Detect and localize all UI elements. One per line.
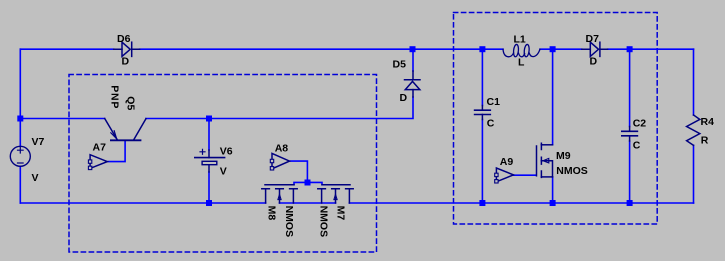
dashed subcircuit box right [454,13,658,225]
svg-text:R4: R4 [701,116,715,128]
junction C1 top [479,46,485,52]
svg-text:D7: D7 [586,33,600,45]
wire C2 top lead [629,49,631,126]
wire A8 output [291,161,308,182]
svg-text:A9: A9 [500,156,514,168]
svg-text:Q5: Q5 [124,96,136,110]
nmos M9 [537,143,553,177]
behavioral source A8 [270,153,289,170]
wire Q5 collector to D5 [146,97,413,119]
junction D5 top [410,46,416,52]
svg-text:C2: C2 [633,118,647,130]
capacitor C2 [622,127,638,142]
svg-text:NMOS: NMOS [283,206,295,238]
wire V6 bottom lead [208,172,210,203]
diode D7 [582,42,608,56]
svg-text:PNP: PNP [108,85,120,109]
svg-text:D5: D5 [393,59,407,71]
wire top middle [140,48,503,50]
svg-text:NMOS: NMOS [317,206,329,238]
resistor R4 [687,115,700,145]
svg-text:R: R [701,135,709,147]
dashed subcircuit box left [69,75,377,253]
wire top left [20,48,113,50]
svg-text:V: V [220,166,227,178]
wire bottom rail middle segment [280,202,336,204]
transistor Q5 (PNP) [105,119,146,141]
junction V6 bottom [206,200,212,206]
nmos M8 [262,185,297,203]
wire M9 drain [552,49,554,144]
inductor L1 [503,44,540,57]
wire Q5 base to A7 [108,140,125,161]
junction M9 drain top [550,46,556,52]
nmos M7 [318,185,353,203]
svg-text:V6: V6 [220,146,233,158]
svg-text:C: C [487,117,495,129]
junction C2 bottom [627,200,633,206]
wire gate bus M8-M7 [294,182,322,184]
wire Q5 emitter feed [20,118,104,120]
wire V6 top lead [208,119,210,151]
wire A9 output [514,174,537,176]
svg-text:V: V [32,172,39,184]
junction C1 bottom [479,200,485,206]
junction A8 gate node [305,180,311,186]
svg-text:L: L [518,56,525,68]
capacitor C1 [475,106,491,120]
svg-text:M9: M9 [556,150,571,162]
svg-text:V7: V7 [32,136,45,148]
svg-text:C: C [633,139,641,151]
voltage source V7 [10,146,30,166]
junction V6 top [206,116,212,122]
svg-text:D: D [590,56,598,68]
svg-text:D: D [122,56,130,68]
junction C2 top [627,46,633,52]
wire C1 top lead [481,49,483,105]
svg-text:L1: L1 [514,33,526,45]
wire R4 bottom [693,145,695,203]
wire bottom rail right segment [349,202,693,204]
svg-text:A8: A8 [275,143,289,155]
wire bottom rail left segment [20,202,265,204]
behavioral source A9 [495,168,514,183]
voltage source V6 (battery) [195,149,225,172]
svg-text:A7: A7 [93,142,107,154]
junction left rail [17,116,23,122]
wire left rail top [19,49,21,118]
svg-text:D6: D6 [117,33,131,45]
svg-text:C1: C1 [487,96,501,108]
wire M9 source to rail [552,177,554,203]
svg-text:NMOS: NMOS [556,165,588,177]
behavioral source A7 [88,155,107,170]
wire D5 cathode to top [412,49,414,71]
diode D5 [405,71,421,97]
junction M9 source bottom [550,200,556,206]
wire left rail bottom [19,166,21,203]
svg-text:M8: M8 [265,206,277,221]
wire top right [608,48,694,50]
svg-text:D: D [400,92,408,104]
wire top after L1 [540,48,582,50]
diode D6 [114,42,140,56]
svg-text:M7: M7 [334,206,346,221]
wire C2 bottom lead [629,141,631,203]
wire C1 bottom lead [481,120,483,204]
wire V7 top lead [19,119,21,147]
wire right drop to R4 [693,49,695,115]
